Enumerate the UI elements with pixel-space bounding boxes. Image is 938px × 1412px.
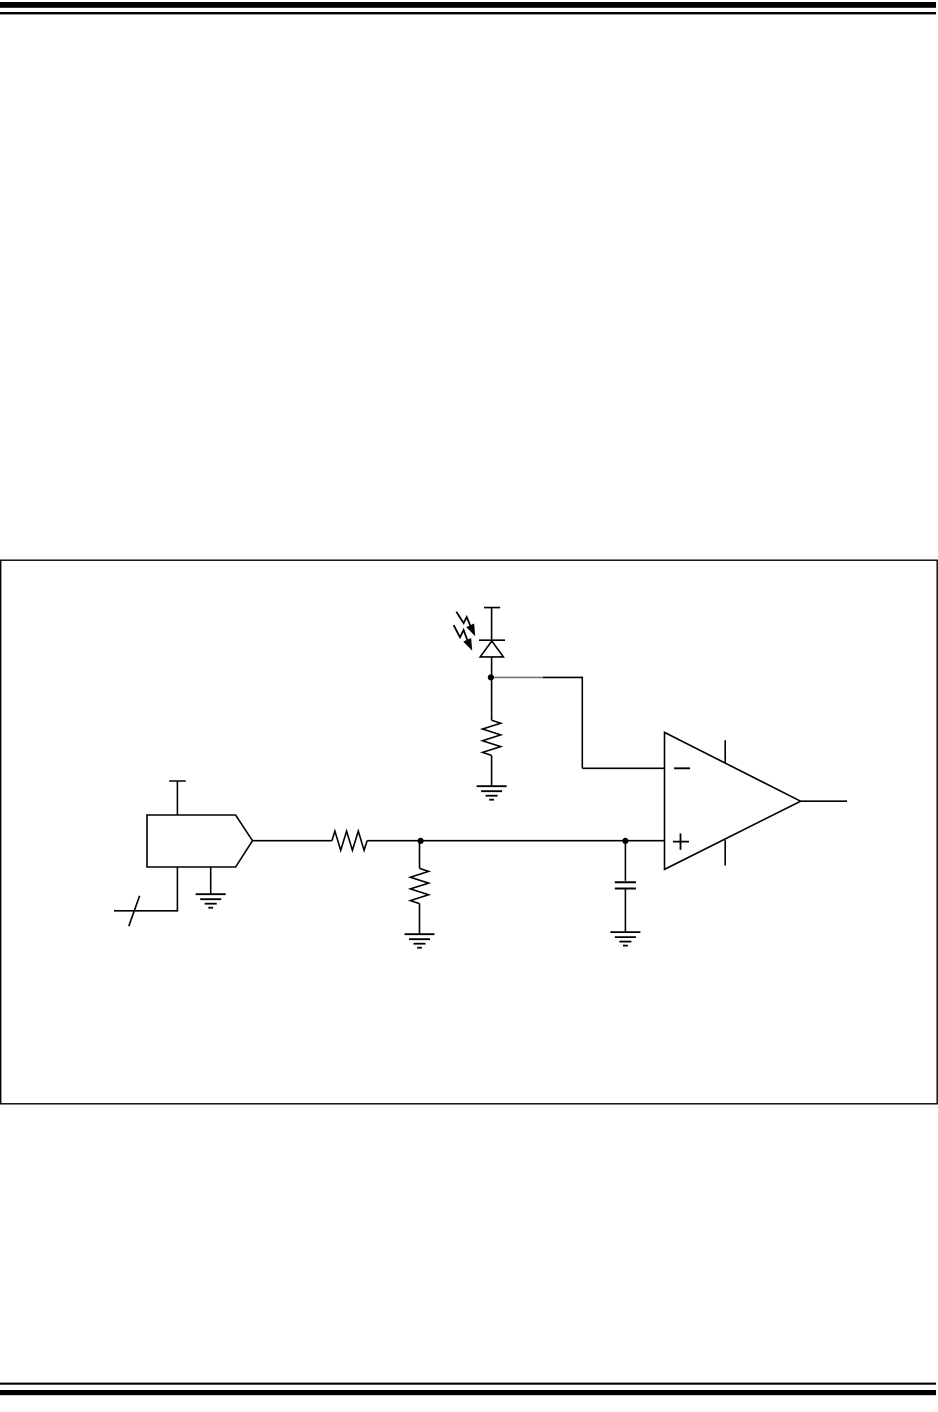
ground (R3) xyxy=(405,934,435,948)
figure frame xyxy=(1,560,938,1104)
wire xyxy=(114,910,178,912)
light arrow 2 xyxy=(454,625,472,649)
resistor R3 (to ground) xyxy=(410,868,428,903)
supply bar VDD (photodiode) xyxy=(484,607,500,609)
wire xyxy=(491,657,493,678)
op-amp inverting input minus sign xyxy=(674,767,690,769)
wire xyxy=(624,889,626,933)
wire (DAC digital input pin) xyxy=(176,867,178,911)
photodiode D1 triangle xyxy=(480,641,503,657)
wire (DAC ground pin) xyxy=(210,867,212,894)
photodiode D1 cathode bar xyxy=(479,639,505,641)
capacitor C1 top plate xyxy=(615,881,636,883)
wire xyxy=(491,608,493,641)
op-amp non-inverting input plus sign xyxy=(673,833,689,849)
wire xyxy=(176,781,178,815)
light arrow 1 xyxy=(456,612,474,635)
wire xyxy=(419,841,421,869)
resistor R2 (series) xyxy=(332,831,367,850)
supply bar (DAC top pin) xyxy=(169,780,186,782)
wire xyxy=(543,676,582,678)
wire (DAC output to series resistor) xyxy=(253,840,332,842)
wire xyxy=(624,841,626,881)
ground (DAC) xyxy=(196,894,226,908)
node C junction dot xyxy=(622,838,628,844)
ground (C1) xyxy=(610,932,640,946)
resistor R1 (photodiode load) xyxy=(483,720,501,755)
DAC U2 (pentagon block) xyxy=(147,815,253,867)
node A junction dot xyxy=(488,674,494,680)
header rule thick xyxy=(0,2,936,8)
wire (op-amp output) xyxy=(801,800,847,802)
wire xyxy=(491,677,493,720)
wire xyxy=(581,677,583,769)
wire xyxy=(419,904,421,935)
op-amp positive supply pin xyxy=(724,740,726,763)
wire (main node run) xyxy=(367,840,664,842)
capacitor C1 bottom plate xyxy=(615,888,636,890)
footer rule thin xyxy=(0,1383,936,1385)
wire (into inverting input) xyxy=(582,767,664,769)
ground (photodiode resistor) xyxy=(477,786,507,800)
header rule thin xyxy=(0,12,936,14)
wire (node to feedback corner, grey segment) xyxy=(494,676,543,678)
footer rule thick xyxy=(0,1390,936,1395)
node B junction dot xyxy=(418,838,424,844)
bus slash xyxy=(129,896,140,926)
op-amp U1 triangle xyxy=(665,732,801,869)
wire xyxy=(491,755,493,786)
op-amp negative supply pin xyxy=(724,840,726,865)
